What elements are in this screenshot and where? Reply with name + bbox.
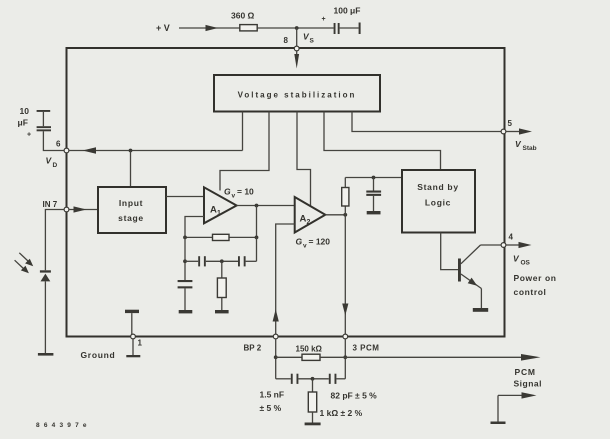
svg-text:Power on: Power on (514, 273, 557, 283)
svg-text:Stab: Stab (523, 145, 537, 152)
wire input stage to A1 (166, 196, 204, 198)
svg-text:Stand by: Stand by (417, 182, 459, 192)
node caps row middle (220, 259, 224, 263)
pin 2 BP (273, 334, 278, 339)
svg-text:+: + (322, 16, 326, 23)
wire +V to R360 (179, 27, 240, 29)
wire A2 output (325, 214, 345, 216)
internal ground bar near pin 1 (125, 310, 139, 336)
resistor R3 to standby (342, 178, 349, 215)
svg-text:stage: stage (118, 213, 144, 223)
capacitor 82pF (329, 374, 346, 384)
ground bar under 1k (305, 423, 321, 426)
wire A2 inverting input to BP (276, 224, 295, 334)
svg-text:D: D (53, 162, 58, 169)
pin 5 (501, 129, 506, 134)
pin 4 (501, 243, 506, 248)
svg-text:OS: OS (521, 260, 531, 267)
Voltage stabilization box (214, 75, 380, 112)
wire stab to pin 5 (352, 112, 501, 132)
wire pin 3 down (344, 339, 346, 379)
capacitor 10uF (27, 110, 51, 139)
node standby input (372, 176, 376, 180)
wire A1 output to A2 (237, 205, 295, 207)
resistor 1k vertical (308, 379, 316, 423)
wire stab bias to A2 (297, 112, 311, 208)
node VS junction (295, 26, 299, 30)
Input stage box (98, 187, 166, 233)
wire A1 inverting input (185, 217, 204, 238)
svg-text:1: 1 (138, 339, 143, 348)
node pin2 / 150k (274, 355, 278, 359)
wire caps row up to feedback (256, 237, 258, 261)
node feedback right (255, 236, 259, 240)
capacitor C2 (238, 256, 257, 266)
svg-text:Signal: Signal (514, 379, 543, 389)
svg-text:= 120: = 120 (309, 237, 331, 247)
svg-text:+: + (27, 132, 31, 139)
svg-text:PCM: PCM (515, 367, 536, 377)
ground bar under Q1 emitter (473, 308, 488, 312)
svg-text:IN 7: IN 7 (43, 200, 58, 209)
capacitor 1.5nF (276, 374, 299, 384)
arrow pin 4 out (506, 244, 520, 246)
svg-text:4: 4 (509, 233, 514, 242)
pin 3 PCM (343, 334, 348, 339)
pin 1 (131, 334, 136, 339)
PCM return stub (491, 392, 537, 424)
wire Q1 collector to pin 4 (481, 244, 502, 246)
svg-text:A: A (300, 214, 307, 225)
node bottom caps (311, 377, 315, 381)
svg-text:control: control (514, 287, 547, 297)
svg-text:3 PCM: 3 PCM (353, 344, 380, 353)
arrow pin8 into stabilization (296, 51, 298, 58)
svg-text:A: A (210, 205, 217, 216)
pin 8 (294, 46, 299, 51)
wire stab to standby feed (324, 112, 441, 171)
transistor Q1 (458, 245, 481, 308)
wire IN7 into input stage (69, 209, 98, 211)
svg-text:G: G (224, 187, 231, 197)
node feedback left (183, 236, 187, 240)
svg-text:1: 1 (217, 210, 221, 217)
PCM signal wire (345, 356, 523, 358)
wire standby to transistor base (441, 233, 458, 270)
svg-text:1.5 nF: 1.5 nF (260, 390, 285, 400)
capacitor C3 vertical (178, 280, 193, 310)
arrow on +V wire (206, 25, 219, 31)
ground bar under R2 (215, 310, 229, 313)
wire node to input stage (130, 151, 132, 188)
svg-text:Voltage stabilization: Voltage stabilization (238, 91, 357, 100)
wire R360 to node VS (257, 27, 333, 29)
svg-text:Logic: Logic (425, 198, 451, 208)
wire IN7 to photodiode (45, 210, 64, 271)
svg-text:± 5 %: ± 5 % (260, 403, 282, 413)
wire A2 output down to pin 3 (344, 215, 346, 334)
wire A1 output down to feedback (256, 206, 258, 238)
node A1 output (255, 204, 259, 208)
wire pin 2 down (275, 339, 277, 379)
wire VD line (69, 150, 243, 152)
pin 6 (64, 148, 69, 153)
op-amp A1 (204, 187, 237, 223)
resistor 150k row (276, 356, 302, 358)
Stand by Logic box (402, 170, 475, 233)
svg-text:2: 2 (307, 219, 311, 226)
svg-text:v: v (303, 243, 307, 250)
svg-text:100 μF: 100 μF (334, 6, 361, 16)
svg-text:Input: Input (119, 198, 143, 208)
arrow down on pin3 wire (342, 304, 348, 316)
wire left branch down (184, 237, 186, 280)
arrow up on BP wire (273, 309, 279, 322)
svg-text:Ground: Ground (81, 350, 116, 360)
wire stab to VD line (242, 112, 244, 151)
resistor 360 ohm (240, 25, 257, 31)
wire stab bias to A1 (220, 112, 269, 191)
arrow on IN7 wire (74, 206, 87, 212)
resistor R2 vertical (217, 261, 226, 310)
node caps row left (183, 259, 187, 263)
wire VS node down to pin 8 (296, 28, 298, 46)
photodiode D1 (40, 270, 51, 281)
capacitor C4 vertical (366, 178, 381, 212)
ground symbol pin 1 (126, 339, 140, 357)
arrow on VD wire (83, 147, 97, 153)
svg-text:360 Ω: 360 Ω (231, 11, 255, 21)
arrow pin 5 out (506, 131, 521, 133)
feedback resistor (213, 234, 230, 240)
svg-text:5: 5 (508, 119, 513, 128)
svg-text:μF: μF (18, 118, 28, 128)
wire caps bottom middle (298, 378, 328, 380)
svg-text:+ V: + V (156, 23, 170, 33)
ground bar under C3 (179, 310, 193, 313)
light arrows (15, 253, 34, 273)
ground under photodiode (38, 353, 54, 356)
wire photodiode to ground (44, 281, 46, 353)
svg-text:= 10: = 10 (237, 187, 254, 197)
svg-text:1 kΩ ± 2 %: 1 kΩ ± 2 % (320, 408, 363, 418)
svg-text:v: v (232, 193, 236, 200)
op-amp A2 (295, 197, 326, 233)
ground bar under C4 (367, 211, 381, 214)
svg-text:10: 10 (20, 106, 30, 116)
capacitor C1 (185, 256, 206, 266)
svg-text:8: 8 (284, 36, 289, 45)
svg-text:BP 2: BP 2 (244, 344, 262, 353)
svg-text:150 kΩ: 150 kΩ (296, 345, 323, 354)
svg-text:S: S (310, 38, 315, 45)
node on VD wire (129, 149, 133, 153)
feedback row wire (185, 236, 257, 238)
svg-text:G: G (296, 237, 303, 247)
IC outer box (67, 48, 505, 337)
svg-text:6: 6 (56, 140, 61, 149)
wire caps row middle (206, 260, 238, 262)
svg-text:8 6 4 3 9 7 e: 8 6 4 3 9 7 e (36, 422, 88, 429)
svg-text:82 pF ± 5 %: 82 pF ± 5 % (331, 391, 378, 401)
wire R3 to standby logic (345, 177, 402, 179)
wire cap10 to pin 6 (43, 131, 64, 150)
node A2 output (343, 213, 347, 217)
node pin3 / 150k (343, 355, 347, 359)
capacitor 100uF (322, 16, 361, 34)
